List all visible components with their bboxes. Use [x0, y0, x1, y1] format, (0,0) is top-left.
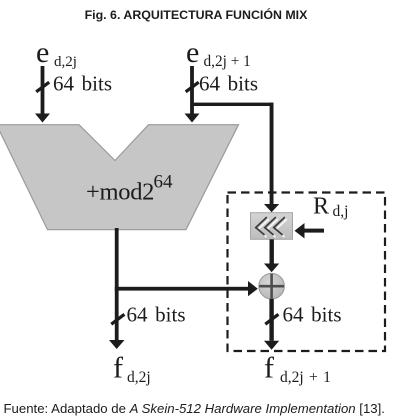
- svg-text:64 bits: 64 bits: [199, 72, 258, 96]
- wire branch from e_d,2j+1 to rotate block: [190, 103, 279, 213]
- svg-text:e: e: [36, 36, 49, 69]
- wire R_d,j into rotate block: [295, 223, 325, 239]
- svg-text:+mod2: +mod2: [86, 179, 154, 206]
- wire xor output down to f_d,2j+1: [264, 299, 279, 350]
- bus tick 64 bits (right output): [265, 303, 341, 327]
- svg-text:64 bits: 64 bits: [283, 303, 342, 327]
- svg-text:f: f: [113, 352, 123, 385]
- wire rotate block to xor: [264, 239, 279, 272]
- bus tick 64 bits (left output): [111, 303, 185, 327]
- adder block +mod2^64 (trapezoid with V notch): [0, 125, 239, 230]
- svg-text:f: f: [264, 352, 274, 385]
- svg-text:d,j: d,j: [333, 203, 349, 220]
- svg-text:d,2j + 1: d,2j + 1: [204, 53, 251, 70]
- svg-text:d,2j: d,2j: [54, 54, 77, 70]
- node f_d,2j+1 label: [264, 352, 331, 387]
- svg-text:d,2j + 1: d,2j + 1: [280, 369, 331, 386]
- svg-text:e: e: [186, 36, 199, 69]
- bus tick 64 bits (left input): [36, 72, 112, 96]
- wire input e_d,2j+1 down into adder: [185, 66, 200, 123]
- svg-text:64: 64: [154, 172, 174, 193]
- svg-text:64 bits: 64 bits: [127, 303, 186, 327]
- svg-text:64 bits: 64 bits: [53, 72, 112, 96]
- wire input e_d,2j down into adder: [35, 66, 50, 123]
- bus tick 64 bits (right input): [186, 72, 258, 96]
- node R_d,j label: [313, 194, 348, 221]
- svg-text:R: R: [313, 194, 329, 220]
- wire branch adder output to xor: [115, 281, 258, 296]
- wire adder output down to f_d,2j: [109, 228, 125, 349]
- svg-text:d,2j: d,2j: [127, 369, 151, 386]
- node e_d,2j+1 label: [186, 36, 251, 70]
- node f_d,2j label: [113, 352, 151, 387]
- svg-text:Fig. 6. ARQUITECTURA FUNCIÓN M: Fig. 6. ARQUITECTURA FUNCIÓN MIX: [85, 7, 309, 22]
- xor gate: [259, 273, 285, 299]
- dashed box (second half-word path): [228, 193, 386, 352]
- rotate block <<<: [251, 213, 293, 240]
- svg-text:Fuente: Adaptado de A Skein-51: Fuente: Adaptado de A Skein-512 Hardware…: [4, 401, 385, 416]
- node e_d,2j label: [36, 36, 77, 70]
